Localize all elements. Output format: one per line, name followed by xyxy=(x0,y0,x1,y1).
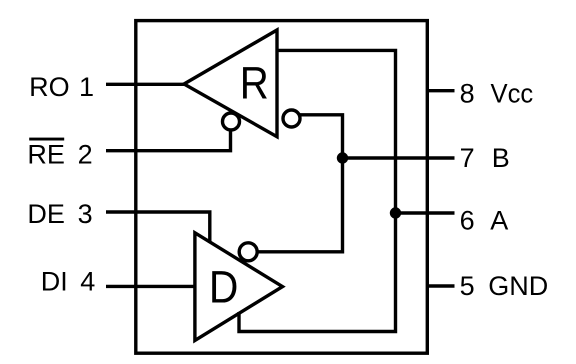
svg-text:8: 8 xyxy=(460,79,475,109)
wire pin8 Vcc tick xyxy=(427,89,455,92)
op-amp receiver R triangle xyxy=(184,30,277,137)
svg-text:GND: GND xyxy=(488,271,548,301)
wire pin4 DI to driver input xyxy=(106,285,195,288)
wire receiver B input bubble to net B xyxy=(258,115,343,252)
wire pin5 GND tick xyxy=(427,284,455,287)
svg-text:R: R xyxy=(240,58,269,109)
wire net B pin7 xyxy=(343,156,455,159)
wire pin3 DE to driver enable xyxy=(106,212,210,243)
node junction dot net A xyxy=(390,207,401,218)
svg-text:3: 3 xyxy=(78,199,93,229)
bubble: driver inverted output xyxy=(239,243,257,261)
svg-text:4: 4 xyxy=(80,267,95,297)
wire receiver A input to net A xyxy=(239,50,396,331)
svg-text:6: 6 xyxy=(460,205,475,235)
svg-text:B: B xyxy=(492,143,510,173)
wire net A pin6 xyxy=(396,211,455,214)
bubble: receiver inverting B input xyxy=(283,110,300,127)
overline for RE label xyxy=(29,138,64,141)
op-amp driver D triangle xyxy=(195,233,283,341)
svg-text:7: 7 xyxy=(460,143,475,173)
wire pin1 RO to receiver output xyxy=(106,83,184,86)
svg-text:1: 1 xyxy=(79,72,94,102)
svg-text:5: 5 xyxy=(460,271,475,301)
svg-text:DI: DI xyxy=(41,267,68,297)
svg-text:A: A xyxy=(490,205,508,235)
svg-text:RE: RE xyxy=(27,140,65,170)
svg-text:DE: DE xyxy=(27,199,65,229)
node junction dot net B xyxy=(337,152,348,163)
svg-text:RO: RO xyxy=(29,72,70,102)
svg-text:Vcc: Vcc xyxy=(491,79,534,109)
IC package outline U1 xyxy=(136,21,428,354)
svg-text:2: 2 xyxy=(78,140,93,170)
wire pin2 RE to receiver enable bubble xyxy=(106,131,231,151)
svg-text:D: D xyxy=(209,263,239,313)
capacitor-style bubble: receiver enable bubble on RE xyxy=(223,113,240,130)
